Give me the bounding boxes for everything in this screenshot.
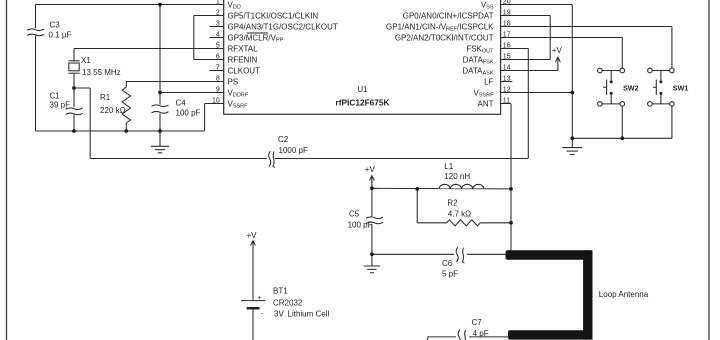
svg-text:6: 6 [216,53,220,60]
svg-text:120 nH: 120 nH [444,172,470,181]
svg-text:13.55 MHz: 13.55 MHz [82,68,121,77]
svg-text:4.7 kΩ: 4.7 kΩ [448,209,471,218]
svg-text:BT1: BT1 [273,286,288,295]
svg-text:1000 pF: 1000 pF [279,146,308,155]
svg-text:rfPIC12F675K: rfPIC12F675K [336,97,390,107]
svg-text:C4: C4 [176,99,187,108]
svg-text:CLKOUT: CLKOUT [228,66,261,75]
svg-text:GP0/AN0/CIN+/ICSPDAT: GP0/AN0/CIN+/ICSPDAT [403,11,494,20]
svg-text:5: 5 [216,42,220,49]
svg-text:100 pF: 100 pF [176,109,201,118]
svg-text:RFENIN: RFENIN [228,55,258,64]
svg-text:X1: X1 [81,56,91,65]
svg-text:18: 18 [503,20,511,27]
svg-text:R2: R2 [447,199,458,208]
svg-text:VSS: VSS [481,0,494,10]
svg-text:0.1 µF: 0.1 µF [49,31,72,40]
svg-text:7: 7 [216,64,220,71]
svg-text:DATAFSK: DATAFSK [463,55,494,65]
svg-text:+V: +V [365,165,376,174]
svg-text:R1: R1 [100,93,111,102]
svg-text:4 pF: 4 pF [473,329,489,338]
svg-text:VSSRF: VSSRF [228,99,249,109]
svg-text:SW2: SW2 [623,83,639,92]
svg-text:8: 8 [216,75,220,82]
svg-text:C2: C2 [278,135,289,144]
svg-text:RFXTAL: RFXTAL [228,44,259,53]
svg-text:+V: +V [247,231,258,240]
svg-text:16: 16 [503,42,511,49]
svg-text:CR2032: CR2032 [273,298,303,307]
svg-text:VSSRF: VSSRF [473,88,494,98]
svg-text:DATAASK: DATAASK [462,66,493,76]
svg-text:19: 19 [503,9,511,16]
svg-text:C6: C6 [442,259,453,268]
svg-text:GP1/AN1/CIN-/VREF/ICSPCLK: GP1/AN1/CIN-/VREF/ICSPCLK [386,22,494,32]
svg-text:10: 10 [212,97,220,104]
svg-text:ANT: ANT [478,99,494,108]
svg-text:20: 20 [503,0,511,5]
svg-text:C5: C5 [349,209,360,218]
svg-text:+V: +V [552,46,563,55]
svg-text:3V: 3V [274,310,284,319]
svg-text:Loop Antenna: Loop Antenna [599,290,649,299]
svg-text:39 pF: 39 pF [50,101,71,110]
svg-text:1: 1 [216,0,220,5]
svg-text:15: 15 [503,53,511,60]
svg-text:-: - [261,311,264,318]
svg-text:220 kΩ: 220 kΩ [100,106,126,115]
svg-text:VDD: VDD [228,0,241,10]
svg-text:GP2/AN2/T0CKI/INT/COUT: GP2/AN2/T0CKI/INT/COUT [395,33,494,42]
svg-text:L1: L1 [444,162,453,171]
svg-text:VDDRF: VDDRF [228,88,249,98]
svg-text:100 pF: 100 pF [348,220,373,229]
svg-text:LF: LF [484,77,493,86]
svg-text:12: 12 [503,86,511,93]
svg-text:C7: C7 [472,318,483,327]
svg-text:14: 14 [503,64,511,71]
svg-text:FSKOUT: FSKOUT [466,44,494,54]
svg-text:GP4/AN3/T1G/OSC2/CLKOUT: GP4/AN3/T1G/OSC2/CLKOUT [228,22,338,31]
svg-text:9: 9 [216,86,220,93]
svg-text:2: 2 [216,9,220,16]
svg-text:5 pF: 5 pF [442,270,458,279]
svg-text:GP3/MCLR/VPP: GP3/MCLR/VPP [228,33,284,43]
svg-text:SW1: SW1 [673,83,689,92]
svg-text:Lithium Cell: Lithium Cell [288,310,330,319]
svg-text:11: 11 [503,97,510,104]
svg-text:PS: PS [228,77,239,86]
svg-text:17: 17 [503,31,511,38]
svg-text:C3: C3 [50,20,61,29]
svg-text:+: + [258,295,262,302]
svg-text:4: 4 [216,31,220,38]
svg-text:3: 3 [216,20,220,27]
svg-text:U1: U1 [357,85,368,94]
svg-text:GP5/T1CKI/OSC1/CLKIN: GP5/T1CKI/OSC1/CLKIN [228,11,319,20]
svg-text:13: 13 [503,75,511,82]
svg-text:C1: C1 [50,91,61,100]
